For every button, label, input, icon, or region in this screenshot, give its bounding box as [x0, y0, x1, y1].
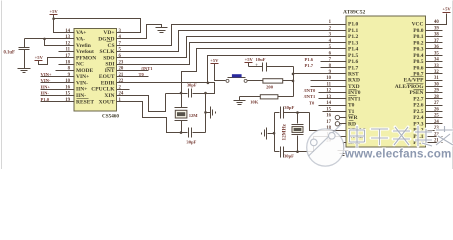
U2 overline RD	[349, 120, 354, 122]
svg-text:VIN-: VIN-	[41, 78, 51, 83]
resistor R2 10K	[260, 95, 278, 99]
svg-text:VCC: VCC	[412, 22, 424, 28]
svg-text:www.elecfans.com: www.elecfans.com	[344, 147, 452, 160]
wire net VIN+ to U1 pin	[41, 76, 75, 78]
wire stub U2 pin 23	[426, 130, 443, 132]
svg-text:P1.4: P1.4	[348, 47, 358, 53]
svg-text:+: +	[255, 63, 258, 68]
svg-text:CS5460: CS5460	[102, 114, 119, 120]
svg-text:RST: RST	[348, 71, 359, 77]
svg-text:4: 4	[119, 35, 122, 40]
junction Y2 ground leg	[273, 132, 276, 135]
wire stub U2 pin 27	[426, 105, 443, 107]
wire +5V to C5	[248, 63, 250, 67]
wire bus row 9 to U2 pin 6	[208, 56, 347, 83]
svg-text:VA-: VA-	[76, 36, 85, 42]
svg-text:VA+: VA+	[76, 30, 86, 36]
svg-text:ALE/PROG: ALE/PROG	[395, 84, 424, 90]
svg-text:3: 3	[119, 29, 122, 34]
svg-text:10: 10	[65, 79, 70, 84]
junction ground leg top	[204, 92, 207, 95]
svg-text:P0.3: P0.3	[413, 47, 423, 53]
svg-text:NC: NC	[76, 62, 84, 68]
svg-text:0.1uF: 0.1uF	[4, 51, 15, 56]
wire net IIN+ to U1 pin	[41, 89, 75, 91]
U1 overline CS	[107, 41, 112, 43]
wire stub U2 pin 33	[426, 67, 443, 69]
svg-text:VD+: VD+	[103, 30, 114, 36]
wire stub U2 pin 35	[426, 55, 443, 57]
wire XTAL2 top rail	[275, 112, 280, 114]
svg-text:9: 9	[329, 70, 332, 75]
capacitor C7 30pF	[281, 147, 284, 158]
svg-text:EOUT: EOUT	[99, 74, 115, 80]
svg-text:RD: RD	[348, 121, 356, 127]
MCU U2 body AT89C52 IC box	[346, 16, 426, 147]
wire CPUCLK stub pin 2	[117, 89, 130, 91]
svg-text:P1.7: P1.7	[305, 63, 314, 68]
wire net P1.0 to U1 pin	[41, 101, 75, 103]
svg-text:P0.6: P0.6	[413, 65, 423, 71]
wire stub U2 pin 21	[426, 142, 443, 144]
wire stub U2 pin 32	[426, 73, 443, 75]
wire bus U1 pin row 3 to U2 pin 1	[117, 25, 347, 46]
svg-text:17: 17	[65, 54, 70, 59]
svg-text:/INT1: /INT1	[140, 66, 153, 71]
svg-text:XOUT: XOUT	[99, 99, 115, 105]
capacitor C5 10uF	[255, 63, 266, 72]
svg-text:TXD: TXD	[348, 84, 360, 90]
svg-text:22: 22	[119, 79, 124, 84]
svg-text:T0: T0	[309, 100, 315, 105]
junction ground leg mid	[204, 111, 207, 114]
wire +5V rail to VD+	[54, 19, 141, 33]
svg-text:RXD: RXD	[348, 78, 360, 84]
svg-text:+5V: +5V	[49, 9, 58, 14]
svg-text:P1.0: P1.0	[41, 97, 50, 102]
svg-text:4: 4	[329, 39, 332, 44]
svg-text:P1.6: P1.6	[305, 57, 314, 62]
svg-text:P2.7: P2.7	[413, 96, 423, 102]
wire T0 stub pin 14	[319, 105, 347, 107]
svg-text:P1.1: P1.1	[348, 28, 358, 34]
svg-text:30pF: 30pF	[284, 105, 294, 110]
wire bus U1 pin row 6 to U2 pin 4	[117, 43, 347, 65]
wire stub U2 pin 39	[426, 30, 443, 32]
svg-text:XIN: XIN	[104, 93, 114, 99]
svg-text:P0.2: P0.2	[413, 40, 423, 46]
wire MODE stub pin 8	[56, 70, 75, 72]
ground below C1	[18, 69, 31, 73]
svg-text:P2.6: P2.6	[413, 103, 423, 109]
svg-text:P1.6: P1.6	[348, 59, 358, 65]
wire EOUT stub pin 21	[117, 76, 149, 78]
wire NC stub pin 18	[59, 64, 75, 66]
svg-text:VIN+: VIN+	[76, 74, 89, 80]
pushbutton S1	[226, 74, 247, 82]
wire GND down	[343, 143, 345, 151]
svg-text:MODE: MODE	[76, 68, 93, 74]
capacitor C1 0.1uF	[19, 48, 30, 50]
capacitor C6 30pF	[281, 107, 284, 119]
wire to left ground	[268, 133, 275, 135]
+5V symbol (RST supply)	[245, 57, 254, 62]
svg-text:EA/VPP: EA/VPP	[404, 78, 425, 84]
svg-text:T0: T0	[139, 72, 145, 77]
wire C5 to RST node	[267, 66, 294, 68]
watermark glyph 4 (decorative)	[415, 126, 432, 146]
svg-text:30pF: 30pF	[187, 83, 197, 88]
svg-text:PFMON: PFMON	[76, 55, 96, 61]
junction row9/line6	[207, 82, 210, 85]
wire EDIR pin 22	[117, 83, 215, 94]
wire net VIN- to U1 pin	[41, 82, 75, 84]
svg-text:1: 1	[119, 98, 122, 103]
junction Y1 top	[180, 92, 183, 95]
junction +5V rail	[52, 17, 55, 20]
U2 overline ALE/PROG	[407, 83, 424, 85]
svg-text:12MHz: 12MHz	[282, 123, 288, 140]
svg-text:36: 36	[434, 45, 439, 50]
svg-text:28: 28	[434, 95, 439, 100]
wire Y2 ground leg (left vertical)	[274, 113, 276, 152]
wire to side ground	[206, 112, 211, 114]
crystal Y2 12MHz body	[292, 112, 304, 152]
wire RXD stub pin 10	[311, 80, 347, 82]
svg-text:P1.0: P1.0	[348, 22, 358, 28]
U2 overline EA/VPP	[411, 76, 424, 78]
svg-text:P0.4: P0.4	[413, 53, 423, 59]
wire TXD stub pin 11	[311, 86, 347, 88]
wire Vrefin tie-down	[45, 39, 75, 46]
wire stub U2 pin 31	[426, 80, 443, 82]
svg-text:P1.2: P1.2	[348, 34, 358, 40]
wire VA- pin 13 to C1	[25, 38, 75, 40]
junction RST wire	[292, 73, 295, 76]
wire stub U2 pin 38	[426, 36, 443, 38]
svg-text:37: 37	[434, 39, 439, 44]
svg-text:30pF: 30pF	[284, 154, 294, 159]
wire stub U2 pin 34	[426, 61, 443, 63]
wire GND stub pin 20	[344, 142, 347, 144]
svg-text:CPUCLK: CPUCLK	[91, 87, 115, 93]
wire XTAL1 bottom rail	[275, 151, 280, 153]
wire top rail to jog	[284, 112, 310, 114]
svg-text:+5V: +5V	[245, 57, 254, 62]
watermark glyph 3 (decorative)	[393, 127, 410, 145]
svg-text:EDIR: EDIR	[101, 80, 116, 86]
svg-text:INT: INT	[105, 68, 115, 74]
svg-text:T0: T0	[348, 103, 355, 109]
svg-text:Vrefin: Vrefin	[76, 43, 91, 49]
svg-text:16: 16	[326, 114, 331, 119]
wire stub U2 pin 24	[426, 123, 443, 125]
svg-text:10uF: 10uF	[256, 57, 266, 62]
wire Y1 bottom rail to ground leg	[193, 132, 206, 134]
wire stub U2 pin 29	[426, 92, 443, 94]
wire RST to U2 pin 9	[294, 73, 347, 75]
svg-text:14: 14	[65, 29, 70, 34]
svg-text:P2.5: P2.5	[413, 109, 423, 115]
+5V symbol (reset button)	[210, 58, 219, 64]
wire +5V to PFMON pin 17	[39, 58, 75, 65]
no-connect circle pin 17	[335, 122, 346, 126]
svg-text:IIN-: IIN-	[41, 91, 50, 96]
wire stub U2 pin 36	[426, 48, 443, 50]
svg-text:+5V: +5V	[35, 55, 44, 60]
svg-text:6: 6	[119, 54, 122, 59]
junction Y2 top	[296, 111, 299, 114]
svg-text:IIN+: IIN+	[76, 87, 87, 93]
wire button to R1	[248, 80, 263, 82]
svg-text:9: 9	[68, 73, 71, 78]
junction Y2 bottom	[296, 150, 299, 153]
svg-text:SCLK: SCLK	[100, 49, 116, 55]
svg-text:P0.5: P0.5	[413, 59, 423, 65]
U2 overline INT0	[349, 89, 357, 91]
svg-text:P2.4: P2.4	[413, 115, 423, 121]
wire jog to U2 XTAL2 pin 18	[310, 113, 347, 131]
svg-text:17: 17	[326, 120, 331, 125]
svg-text:AT89C52: AT89C52	[343, 10, 365, 16]
watermark glyph 2 (decorative)	[371, 129, 388, 145]
svg-text:+5V: +5V	[442, 7, 451, 12]
wire stub U2 pin 28	[426, 98, 443, 100]
wire ground to R2	[239, 97, 241, 101]
U1 overline RESET	[77, 98, 89, 100]
wire INT0 stub pin 12	[319, 92, 347, 94]
wire DGND pin 4 to ground	[117, 25, 162, 39]
wire C1 to ground	[24, 50, 26, 69]
wire T1 stub pin 15	[323, 111, 347, 113]
ground (rotated) at Y2	[262, 128, 267, 140]
sheet right border	[452, 1, 453, 170]
svg-text:/INT1: /INT1	[303, 94, 316, 99]
svg-text:P1.5: P1.5	[348, 53, 358, 59]
no-connect circle pin 16	[335, 115, 346, 119]
crystal Y1 4.096M body	[175, 94, 188, 133]
svg-text:P0.0: P0.0	[413, 28, 423, 34]
svg-text:12M: 12M	[189, 113, 199, 118]
watermark glyph 5 (decorative)	[436, 126, 453, 145]
svg-text:IIN-: IIN-	[76, 93, 86, 99]
svg-text:13: 13	[65, 35, 70, 40]
svg-text:IIN+: IIN+	[41, 84, 51, 89]
svg-text:VIN-: VIN-	[76, 80, 88, 86]
U1 overline INT	[107, 67, 115, 69]
watermark glyph 1 (decorative)	[350, 126, 365, 148]
wire stub U2 pin 22	[426, 136, 443, 138]
wire bottom rail to jog	[284, 151, 314, 153]
wire +5V down to VA+ pin 14	[54, 19, 75, 33]
+5V symbol (PFMON)	[35, 55, 44, 61]
svg-text:8: 8	[329, 64, 332, 69]
U2 overline PSEN	[414, 89, 424, 91]
watermark logo circle (decorative)	[307, 124, 344, 166]
wire RST node vertical	[293, 67, 295, 97]
ground at R2	[234, 101, 246, 105]
wire XIN jog from pin 24	[117, 94, 166, 112]
wire bus crystal node to U2 pin 5	[182, 49, 347, 93]
ground (rotated) at Y1	[211, 107, 216, 119]
svg-text:/INT0: /INT0	[303, 88, 316, 93]
wire bus U1 pin row 4 to U2 pin 2	[117, 31, 347, 52]
wire net IIN- to U1 pin	[41, 95, 75, 97]
svg-text:32: 32	[434, 70, 439, 75]
junction Y1 bottom	[180, 131, 183, 134]
wire Y1 ground leg vertical	[205, 94, 207, 133]
junction VA-/Vrefin tie	[43, 38, 46, 41]
svg-text:21: 21	[119, 73, 124, 78]
svg-text:P1.3: P1.3	[348, 40, 358, 46]
wire P1.7 stub	[321, 67, 347, 69]
svg-text:SDI: SDI	[105, 62, 114, 68]
svg-text:P0.1: P0.1	[413, 34, 423, 40]
wire stub U2 pin 25	[426, 117, 443, 119]
wire VA- to C1 top	[24, 39, 26, 48]
wire P1.6 stub	[321, 61, 347, 63]
wire +5V to button	[215, 64, 226, 81]
wire INT stub pin 20	[117, 70, 149, 72]
svg-text:T1: T1	[348, 109, 355, 115]
ground at U2 GND	[338, 151, 349, 156]
svg-text:13: 13	[326, 95, 331, 100]
wire stub U2 pin 30	[426, 86, 443, 88]
svg-text:PSEN: PSEN	[409, 90, 423, 96]
U2 overline WR	[349, 114, 354, 116]
svg-text:33: 33	[434, 64, 439, 69]
wire +5V stem	[53, 15, 55, 19]
svg-text:200: 200	[266, 85, 274, 90]
svg-text:10K: 10K	[250, 99, 259, 104]
U2 overline INT1	[349, 95, 357, 97]
wire XOUT jog from pin 1	[117, 102, 188, 133]
capacitor C3 30pF (top of Y1)	[189, 89, 192, 98]
wire stub U2 pin 26	[426, 111, 443, 113]
svg-text:CS: CS	[107, 43, 114, 49]
resistor R1 200	[263, 79, 283, 83]
svg-text:DGND: DGND	[98, 36, 114, 42]
svg-text:P1.7: P1.7	[348, 65, 358, 71]
junction R1 node	[292, 80, 295, 83]
wire INT1 stub pin 13	[319, 98, 347, 100]
svg-text:RESET: RESET	[76, 99, 94, 105]
svg-text:30pF: 30pF	[186, 139, 196, 144]
svg-text:24: 24	[434, 120, 439, 125]
svg-text:19: 19	[65, 98, 70, 103]
wire XIN node rail	[166, 93, 188, 95]
svg-text:SDO: SDO	[103, 55, 115, 61]
wire bus U1 pin row 5 to U2 pin 3	[117, 37, 347, 58]
wire jog to U2 XTAL1 pin 19	[314, 137, 347, 152]
wire stub U2 pin 37	[426, 42, 443, 44]
capacitor C4 30pF (bottom of Y1)	[189, 128, 192, 138]
ground at DGND	[156, 28, 168, 33]
+5V symbol (U2 VCC)	[442, 7, 451, 13]
sheet left border	[1, 1, 3, 170]
svg-text:INT1: INT1	[348, 96, 361, 102]
svg-text:VIN+: VIN+	[41, 72, 52, 77]
svg-text:5: 5	[329, 45, 332, 50]
wire R1 to RST node	[283, 80, 294, 82]
IC U1 CS5460 body	[74, 29, 117, 112]
wire R2 to RST node	[278, 96, 294, 98]
wire VCC pin 40 to +5V	[426, 14, 447, 25]
svg-text:Vrefout: Vrefout	[76, 49, 94, 55]
wire Vrefout stub pin 11	[59, 51, 75, 53]
svg-text:+5V: +5V	[210, 58, 219, 63]
+5V symbol (VA+/VD+ rail)	[49, 9, 58, 15]
